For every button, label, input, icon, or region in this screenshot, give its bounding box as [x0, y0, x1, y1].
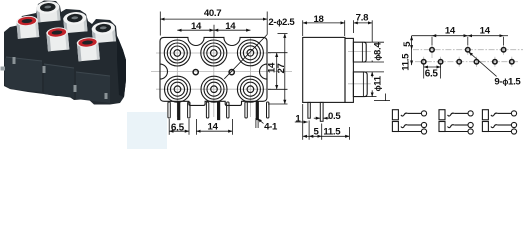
- terminal T2 g3: [511, 122, 516, 127]
- wire to terminal top g1: [408, 112, 422, 114]
- hole B3: [457, 60, 461, 64]
- dim 0.5 line right part: [323, 117, 330, 119]
- barrel centerline 1: [348, 51, 372, 53]
- hole A2: [466, 48, 470, 52]
- photo tower top edge 3: [76, 72, 110, 76]
- wire to terminal bottom g3: [498, 124, 512, 126]
- dim 11.5 line: [322, 135, 350, 137]
- dim 7.8 line: [354, 22, 373, 24]
- photo pin stub s1: [13, 57, 16, 64]
- switch lever top g2: [448, 113, 455, 116]
- side pin 1: [308, 102, 310, 118]
- photo pin stub s2: [43, 66, 46, 73]
- dim 5 line b: [309, 135, 322, 137]
- svg-text:40.7: 40.7: [204, 8, 221, 19]
- ground wire g1: [398, 131, 421, 133]
- barrel phi8.4 rim line: [361, 42, 363, 62]
- front jack face 1 (red): [16, 15, 38, 27]
- svg-text:14: 14: [225, 21, 236, 32]
- dim 18 ext lines: [302, 20, 304, 36]
- photo tower front panel 1: [5, 57, 42, 92]
- svg-text:4-1: 4-1: [264, 121, 278, 132]
- terminal T2 g2: [468, 122, 473, 127]
- photo tower top edge 2: [44, 64, 74, 68]
- back jack cylinder 2: [63, 16, 87, 33]
- side pin 2: [320, 102, 323, 121]
- photo tower front panel 2: [44, 64, 74, 98]
- dim 0.5 arrow left part: [314, 117, 320, 119]
- leader 4-1: [258, 119, 264, 124]
- dim 40.7 line: [160, 18, 267, 20]
- jack body rect bottom g2: [439, 122, 445, 132]
- right ext lines: [268, 52, 288, 54]
- row2 centerline: [415, 61, 518, 63]
- switch lever top g3: [491, 113, 498, 116]
- wire to terminal bottom g1: [408, 124, 422, 126]
- pcb dim 5-11.5 vertical line: [411, 36, 413, 65]
- switch lever bottom g1: [401, 125, 408, 128]
- body outline: [160, 37, 267, 105]
- svg-text:14: 14: [191, 21, 202, 32]
- row1 centerline: [413, 49, 523, 51]
- jack body rect top g1: [392, 110, 398, 120]
- svg-text:6.5: 6.5: [425, 69, 439, 80]
- hole B5: [493, 60, 497, 64]
- back jack face 3: [91, 21, 115, 35]
- ground wire g2: [445, 131, 468, 133]
- svg-text:0.5: 0.5: [328, 111, 341, 122]
- dim phi8.4 line: [371, 42, 373, 62]
- dim 18 line: [303, 22, 345, 24]
- svg-text:ϕ11: ϕ11: [373, 75, 384, 91]
- jack body rect bottom g1: [392, 122, 398, 132]
- hole A1: [430, 48, 434, 52]
- centerline col1: [176, 38, 178, 117]
- wire to terminal top g3: [498, 112, 512, 114]
- pcb dim 5 arrows: [411, 36, 413, 40]
- back jack face 1: [36, 0, 60, 14]
- jack J6 rings: [237, 76, 263, 102]
- right edge semicircle: [260, 64, 267, 79]
- terminal T3 g2: [468, 129, 473, 134]
- dim phi11 line: [371, 72, 373, 97]
- photo tower front panel 3: [76, 72, 110, 103]
- dim 14 bottom line: [196, 130, 232, 132]
- dim 14 right line: [276, 53, 278, 90]
- mounting hole H2: [229, 70, 234, 75]
- jack body rect top g2: [439, 110, 445, 120]
- svg-text:5: 5: [313, 127, 319, 138]
- jack J2 rings: [201, 40, 227, 66]
- leader 9-phi1.5: [469, 52, 497, 76]
- phi11 tick tail: [385, 94, 387, 102]
- terminal T3 g1: [421, 129, 426, 134]
- wire to terminal bottom g2: [454, 124, 468, 126]
- dim 14 top ext mid: [213, 25, 215, 38]
- svg-text:27: 27: [276, 63, 287, 73]
- centerline col3: [249, 38, 251, 117]
- hole B6: [510, 60, 514, 64]
- front view dimensions: [160, 12, 287, 135]
- jack J4 rings: [165, 76, 191, 102]
- terminal T3 g3: [511, 129, 516, 134]
- terminal T1 g2: [468, 111, 473, 116]
- jack J5 rings: [201, 76, 227, 102]
- pcb dim 14 ext lines: [431, 37, 433, 46]
- barrel phi11 rim line: [362, 72, 364, 97]
- side flange: [345, 38, 353, 102]
- jack body rect bottom g3: [482, 122, 488, 132]
- pins under jack column3: [245, 102, 269, 120]
- barrel centerline 2: [348, 83, 372, 85]
- photo body dark housing: [4, 1, 126, 105]
- svg-text:ϕ8.4: ϕ8.4: [373, 42, 384, 61]
- photo body right dark side: [117, 36, 126, 97]
- dim 5 line: [303, 135, 309, 137]
- pins under jack column2: [206, 102, 229, 120]
- hole B1: [422, 60, 426, 64]
- photo tower top edge 1: [6, 57, 42, 61]
- dim 40.7 ext lines: [159, 12, 161, 36]
- terminal T2 g1: [421, 122, 426, 127]
- switch lever top g1: [401, 113, 408, 116]
- svg-text:11.5: 11.5: [401, 53, 412, 71]
- pcb dim 11.5 arrow: [411, 61, 413, 65]
- left edge semicircle: [160, 64, 168, 79]
- terminal T1 g3: [511, 111, 516, 116]
- front jack cylinder 3: [77, 41, 100, 62]
- svg-text:2-ϕ2.5: 2-ϕ2.5: [268, 17, 295, 28]
- centerline mid holes: [151, 71, 292, 73]
- front jack cylinder 1: [16, 19, 39, 39]
- svg-text:14: 14: [208, 122, 219, 133]
- label phi8.4 rotated: [371, 42, 384, 61]
- front jack face 3 (red): [76, 37, 98, 49]
- pcb dim 14a line: [432, 35, 468, 37]
- back jack cylinder 1: [36, 5, 60, 22]
- barrel phi11: [353, 72, 367, 97]
- pin tail lines: [255, 118, 257, 128]
- svg-text:9-ϕ1.5: 9-ϕ1.5: [494, 76, 521, 87]
- jack J3 rings: [237, 40, 263, 66]
- leader 2-phi2.5: [224, 35, 267, 79]
- back jack cylinder 3: [92, 26, 116, 43]
- svg-text:14: 14: [480, 25, 491, 36]
- scan tint patch: [127, 112, 167, 149]
- dim 27 right line: [284, 34, 286, 104]
- hole crosshair verticals: [424, 45, 512, 67]
- jack body rect top g3: [482, 110, 488, 120]
- dim 14 top line b: [214, 29, 250, 31]
- dim 6.5 bottom line: [169, 130, 189, 132]
- dim 14 top line a: [177, 29, 214, 31]
- dim phi8.4 ext ticks: [364, 41, 384, 43]
- pins under jack column1: [168, 102, 190, 120]
- switch lever bottom g3: [491, 125, 498, 128]
- svg-text:14: 14: [445, 25, 456, 36]
- photo pin stub s4: [105, 93, 108, 99]
- wire to terminal top g2: [454, 112, 468, 114]
- centerline row1: [156, 52, 271, 54]
- switch lever bottom g2: [448, 125, 455, 128]
- mounting hole H1: [193, 70, 198, 75]
- label phi11 rotated: [371, 75, 384, 91]
- svg-text:6.5: 6.5: [171, 123, 185, 134]
- svg-text:18: 18: [313, 14, 324, 25]
- front jack cylinder 2: [46, 31, 69, 52]
- svg-text:7.8: 7.8: [356, 12, 369, 23]
- hole B2: [438, 60, 442, 64]
- centerline row2: [156, 88, 271, 90]
- centerline col2: [213, 38, 215, 117]
- dim 7.8 ext lines: [353, 20, 355, 33]
- svg-text:11.5: 11.5: [323, 127, 341, 138]
- hole A3: [501, 48, 505, 52]
- pcb dim 6.5 ext lines: [423, 64, 425, 79]
- pcb dim 14 line left run: [412, 35, 432, 37]
- jack J1 rings: [164, 40, 190, 66]
- pcb dim 14 line right run: [504, 35, 508, 37]
- ground wire g3: [488, 131, 511, 133]
- bottom ext lines: [168, 119, 170, 135]
- bottom ext lines: [302, 104, 304, 140]
- back jack face 2: [63, 11, 87, 25]
- photo pin stub s3: [74, 85, 77, 92]
- photo pin stub left: [1, 67, 6, 71]
- side body: [303, 37, 345, 102]
- dim 1 line: [295, 121, 308, 123]
- hole B4: [474, 60, 478, 64]
- svg-text:1: 1: [295, 113, 301, 124]
- barrel phi8.4: [353, 42, 366, 62]
- terminal T1 g1: [421, 111, 426, 116]
- dim phi11 ext ticks: [365, 71, 384, 73]
- pcb dim 14b line: [468, 35, 504, 37]
- pcb dim 6.5 line: [424, 66, 441, 68]
- front jack face 2 (red): [46, 27, 68, 39]
